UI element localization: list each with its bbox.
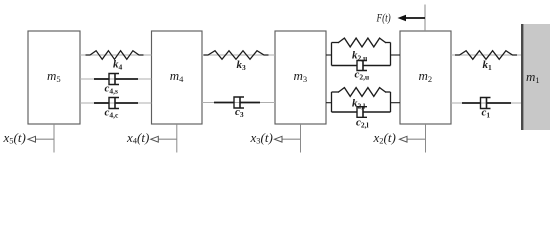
label k1 bbox=[483, 59, 493, 72]
wire bbox=[80, 78, 152, 80]
damper c1 bbox=[462, 98, 511, 109]
displacement x3(t) arrow bbox=[275, 136, 301, 142]
wire bbox=[202, 54, 275, 56]
spring k1 bbox=[455, 51, 517, 60]
svg-text:x2(t): x2(t) bbox=[373, 130, 396, 146]
label c3 bbox=[235, 106, 244, 119]
label c2,l bbox=[356, 117, 369, 130]
wire bbox=[80, 102, 152, 104]
label k2,l bbox=[352, 97, 365, 110]
label x4(t) bbox=[126, 130, 149, 146]
node upper-left junction bbox=[331, 43, 333, 66]
label k2,u bbox=[352, 49, 367, 62]
svg-text:x3(t): x3(t) bbox=[250, 130, 273, 146]
wire F(t) drop line bbox=[424, 5, 426, 32]
label k3 bbox=[237, 59, 247, 72]
svg-text:x4(t): x4(t) bbox=[126, 130, 149, 146]
mass m4 bbox=[152, 31, 203, 124]
damper c2,u bbox=[332, 61, 391, 71]
wire x5(t) drop line bbox=[53, 124, 55, 153]
wire bbox=[391, 54, 401, 56]
wire bbox=[202, 102, 275, 104]
wire bbox=[80, 54, 152, 56]
wire x4(t) drop line bbox=[176, 124, 178, 153]
wire bbox=[391, 102, 401, 104]
label c4,c bbox=[105, 106, 120, 119]
wire bbox=[326, 54, 332, 56]
label c4,s bbox=[105, 82, 119, 95]
force F(t) arrow bbox=[398, 15, 426, 21]
spring k2,u bbox=[332, 38, 391, 47]
label x2(t) bbox=[373, 130, 396, 146]
label c1 bbox=[482, 107, 491, 120]
displacement x5(t) arrow bbox=[28, 136, 54, 142]
mass m1 (wall block) bbox=[521, 24, 550, 130]
wire x2(t) drop line bbox=[425, 124, 427, 153]
node lower-left junction bbox=[331, 92, 333, 112]
wire x3(t) drop line bbox=[300, 124, 302, 153]
svg-text:F(t): F(t) bbox=[376, 12, 391, 24]
label x5(t) bbox=[3, 130, 26, 146]
label c2,u bbox=[355, 69, 370, 82]
spring k4 bbox=[86, 51, 144, 60]
label k4 bbox=[113, 59, 123, 72]
label x3(t) bbox=[250, 130, 273, 146]
damper c4,c bbox=[94, 98, 138, 109]
wire bbox=[451, 102, 521, 104]
mass m3 bbox=[275, 31, 326, 124]
displacement x2(t) arrow bbox=[400, 136, 426, 142]
label F(t) bbox=[376, 12, 391, 24]
mass m5 bbox=[28, 31, 80, 124]
displacement x4(t) arrow bbox=[151, 136, 177, 142]
node upper-right junction bbox=[390, 43, 392, 66]
damper c4,s bbox=[94, 74, 138, 85]
damper c3 bbox=[214, 97, 260, 108]
wire bbox=[451, 54, 521, 56]
damper c2,l bbox=[332, 107, 391, 118]
spring k2,l bbox=[332, 88, 391, 97]
wire bbox=[326, 102, 332, 104]
svg-text:x5(t): x5(t) bbox=[3, 130, 26, 146]
mass m2 bbox=[400, 31, 451, 124]
node lower-right junction bbox=[390, 92, 392, 112]
spring k3 bbox=[204, 51, 269, 60]
